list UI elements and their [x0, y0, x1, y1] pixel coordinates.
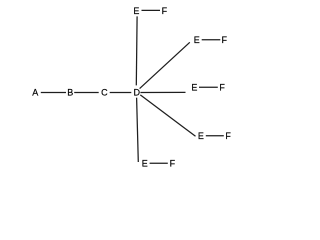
wire D-E3 [140, 91, 185, 93]
wire E4-F4 [206, 135, 224, 137]
svg-text:F: F [225, 131, 231, 141]
wire B-C [74, 92, 99, 94]
svg-text:E: E [198, 131, 204, 141]
svg-text:E: E [142, 158, 148, 168]
svg-text:F: F [222, 35, 228, 45]
wire E1-F1 [142, 9, 161, 11]
wire D-E1 [135, 16, 138, 85]
wire A-B [41, 92, 66, 94]
svg-text:F: F [170, 158, 176, 168]
svg-text:D: D [134, 88, 141, 98]
wire D-E5 [137, 98, 139, 162]
wire D-E4 [140, 95, 195, 136]
wire E5-F5 [150, 162, 168, 164]
wire E3-F3 [199, 86, 218, 88]
svg-text:F: F [219, 83, 225, 93]
svg-text:F: F [162, 6, 168, 16]
svg-text:E: E [133, 6, 139, 16]
svg-text:B: B [67, 88, 73, 98]
svg-text:C: C [101, 88, 108, 98]
wire C-D [110, 92, 132, 94]
wire E2-F2 [202, 39, 221, 41]
svg-text:E: E [191, 82, 197, 92]
wire D-E2 [140, 42, 190, 88]
svg-text:E: E [194, 35, 200, 45]
svg-text:A: A [32, 88, 38, 98]
